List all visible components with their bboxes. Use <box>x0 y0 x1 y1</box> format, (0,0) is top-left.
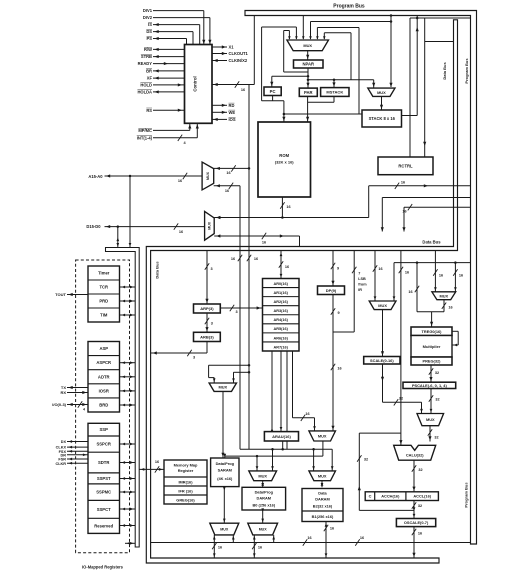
svg-text:BRD: BRD <box>99 402 108 407</box>
svg-text:MUX: MUX <box>378 303 387 308</box>
wire: stack output up to program bus <box>416 16 418 116</box>
mux U-b0sel <box>249 471 277 481</box>
svg-text:16: 16 <box>418 532 422 536</box>
memory DARAM B2/B1 <box>302 489 343 522</box>
control 16-bit bus to program bus <box>212 84 254 86</box>
mux1 input arrows <box>288 36 291 39</box>
svg-text:HOLDA: HOLDA <box>137 90 152 95</box>
wire DP out to ARAU mux <box>332 295 334 431</box>
svg-text:ASPCR: ASPCR <box>96 360 111 365</box>
svg-text:Memory Map: Memory Map <box>174 463 198 468</box>
mux U-treg <box>432 292 456 300</box>
register SCALE(0-16) <box>364 357 400 365</box>
svg-text:XF: XF <box>147 76 153 81</box>
wire 7 LSB from IR to DP line <box>353 251 355 333</box>
pin IOS <box>212 118 227 120</box>
svg-text:R/W: R/W <box>144 47 152 52</box>
wire drop to scale mux right <box>393 263 395 301</box>
wire program bus drop to CALU x400.9 <box>400 251 402 446</box>
wire: stack right edge to x417 <box>402 115 418 117</box>
svg-text:3: 3 <box>211 322 213 326</box>
svg-text:TREG0(16): TREG0(16) <box>422 329 443 334</box>
data bus bar (right vertical + frame top/left/bottom) <box>146 20 457 563</box>
register group serial ASP <box>88 342 120 413</box>
svg-text:ARB(3): ARB(3) <box>200 334 214 339</box>
svg-text:(4K x16): (4K x16) <box>217 476 233 481</box>
wire line2 (arau mux out) <box>322 441 324 456</box>
wire net y=262.6 from program bus <box>394 262 471 264</box>
svg-text:MP/MC: MP/MC <box>138 128 152 133</box>
wire MSTACK out <box>333 96 335 102</box>
register ACC (C | ACCH | ACCL) <box>365 492 438 501</box>
svg-text:16: 16 <box>218 546 222 550</box>
svg-text:Data/Prog: Data/Prog <box>255 490 274 495</box>
svg-text:32: 32 <box>435 398 439 402</box>
svg-text:BR: BR <box>146 69 152 74</box>
svg-text:16: 16 <box>225 189 229 193</box>
wire riser to program bus wire1 <box>368 186 370 218</box>
svg-text:B2(32 x16): B2(32 x16) <box>313 504 333 509</box>
pin RD <box>212 104 227 106</box>
wire2 from program bus <box>382 197 470 199</box>
svg-text:Data Bus: Data Bus <box>422 240 441 245</box>
svg-text:16: 16 <box>459 274 463 278</box>
wire: x424.7 to RCTRL top with arrow <box>424 18 426 157</box>
wire data bus to AR registers <box>280 251 282 279</box>
wire ROM output <box>281 197 283 218</box>
svg-text:MUX: MUX <box>206 171 210 180</box>
wire b0 low mux in left <box>253 535 255 558</box>
svg-text:PSCALE(-6, 0, 1, 4): PSCALE(-6, 0, 1, 4) <box>412 383 448 388</box>
svg-text:SARAM: SARAM <box>218 468 232 473</box>
svg-text:16: 16 <box>405 271 409 275</box>
svg-text:16: 16 <box>285 265 289 269</box>
wire: bus bar to stack mux right input <box>390 14 393 17</box>
svg-text:CLKOUT1: CLKOUT1 <box>229 51 249 56</box>
svg-text:Program Bus: Program Bus <box>464 482 469 508</box>
svg-text:from: from <box>358 283 367 287</box>
svg-text:(32K x 16): (32K x 16) <box>275 160 295 165</box>
mux U-arp <box>209 383 236 391</box>
svg-text:IMR(16): IMR(16) <box>178 479 193 484</box>
svg-text:AR7(16): AR7(16) <box>274 345 289 349</box>
svg-text:32: 32 <box>418 468 422 472</box>
wire NPAR out <box>307 68 309 88</box>
svg-text:16: 16 <box>408 290 412 294</box>
register file AR0-AR7 <box>263 279 300 352</box>
svg-text:16: 16 <box>231 257 235 261</box>
svg-text:16: 16 <box>178 179 182 183</box>
register STACK 8x16 <box>362 110 402 127</box>
svg-text:AR3(16): AR3(16) <box>274 309 289 313</box>
wire PAR to ROM <box>307 96 309 122</box>
register OSCALE(0-7) <box>396 519 435 527</box>
mux U-data (data mux) <box>205 211 215 240</box>
wire DP drop <box>332 251 334 287</box>
svg-text:16: 16 <box>448 306 452 310</box>
svg-text:16: 16 <box>307 536 311 540</box>
svg-text:ACCH(16): ACCH(16) <box>381 494 400 499</box>
svg-text:4: 4 <box>83 408 85 412</box>
mux U-b2sel <box>309 471 336 481</box>
wire drop to ARP <box>206 251 208 305</box>
svg-text:9: 9 <box>337 267 339 271</box>
pin CLKOUT1 <box>212 53 227 55</box>
mux U-calu <box>417 414 444 426</box>
svg-text:MUX: MUX <box>318 433 327 438</box>
wire DIV2 drop to control <box>209 18 211 45</box>
svg-text:PRD: PRD <box>99 299 108 304</box>
svg-text:RCTRL: RCTRL <box>398 163 413 168</box>
svg-text:WE: WE <box>229 110 236 115</box>
svg-text:MUX: MUX <box>318 473 327 478</box>
svg-text:16: 16 <box>305 412 309 416</box>
svg-text:AR0(16): AR0(16) <box>274 282 289 286</box>
wire drop to treg via jog <box>416 263 418 312</box>
svg-text:16: 16 <box>262 241 266 245</box>
register group timer <box>88 266 120 322</box>
svg-text:CALU(32): CALU(32) <box>406 452 424 457</box>
wire drop to scale mux left <box>374 251 376 302</box>
wire pc loop into mux1 <box>262 26 297 28</box>
svg-text:SCALE(0-16): SCALE(0-16) <box>370 358 394 363</box>
wire line1 drops <box>272 449 274 471</box>
wire data mux top input arrow <box>216 216 220 219</box>
svg-text:LSB: LSB <box>358 277 366 281</box>
wire: net y=18 from x410 to program bus bar <box>410 17 471 19</box>
svg-text:32: 32 <box>435 371 439 375</box>
svg-text:32: 32 <box>418 504 422 508</box>
pin CLKIN/X2 <box>212 60 227 62</box>
svg-text:ACCL(16): ACCL(16) <box>413 494 431 499</box>
svg-text:MUX: MUX <box>377 90 386 95</box>
svg-text:IOSR: IOSR <box>99 388 109 393</box>
wire AR out 2 to ARAU <box>280 351 282 432</box>
register NPAR <box>294 60 324 68</box>
wire: x410 to RCTRL top <box>409 18 411 157</box>
svg-text:IOS: IOS <box>229 117 236 122</box>
svg-text:16: 16 <box>360 536 364 540</box>
svg-text:16: 16 <box>254 257 258 261</box>
svg-text:32: 32 <box>364 458 368 462</box>
wire drop to tmux right <box>454 263 456 292</box>
svg-text:CLKIN/X2: CLKIN/X2 <box>229 58 248 63</box>
svg-text:CLKR: CLKR <box>55 462 66 466</box>
svg-text:16: 16 <box>378 267 382 271</box>
svg-text:TCR: TCR <box>99 285 108 290</box>
memory ROM (32K x 16) <box>258 122 311 197</box>
svg-text:16: 16 <box>337 367 341 371</box>
svg-text:SSPST: SSPST <box>97 476 111 481</box>
svg-text:PAR: PAR <box>304 90 313 95</box>
svg-text:DIV2: DIV2 <box>143 15 153 20</box>
wire1 to program bus <box>369 185 471 187</box>
svg-text:MUX: MUX <box>303 43 312 48</box>
svg-text:16: 16 <box>226 171 230 175</box>
wire b1 out to data bus <box>325 522 327 559</box>
svg-text:MUX: MUX <box>218 385 227 390</box>
reserved-to-bar arrow <box>125 542 135 544</box>
wire scale mux to SCALE <box>382 310 384 357</box>
register group SSP <box>88 423 120 533</box>
wire PC to ROM <box>283 101 285 122</box>
wire y21.5 line drop into mux1 <box>310 22 312 40</box>
wire drop to MSTACK <box>333 80 335 88</box>
wire CALU out to ACC <box>413 460 415 492</box>
wire loopA into mux1 <box>316 28 318 40</box>
svg-text:16: 16 <box>241 88 245 92</box>
svg-text:DX: DX <box>61 440 67 444</box>
wire ARAU out to line1 <box>282 441 284 449</box>
svg-text:STRB: STRB <box>141 54 152 59</box>
svg-text:Program Bus: Program Bus <box>464 58 469 84</box>
mux U-b0low <box>248 523 278 535</box>
svg-text:3: 3 <box>210 267 212 271</box>
svg-text:Register: Register <box>178 468 194 473</box>
svg-text:DIV1: DIV1 <box>143 8 153 13</box>
wire line1 <box>240 448 332 450</box>
svg-text:AR5(16): AR5(16) <box>274 327 289 331</box>
wire OSCALE out to data bus <box>413 527 415 558</box>
svg-text:Data Bus: Data Bus <box>155 261 160 279</box>
svg-text:INT(1-4): INT(1-4) <box>137 135 153 140</box>
svg-text:ROM: ROM <box>279 153 289 158</box>
wire PC output loop <box>272 96 274 101</box>
svg-text:MUX: MUX <box>258 473 267 478</box>
svg-text:IO-Mapped Registers: IO-Mapped Registers <box>82 565 124 570</box>
svg-text:SSPMC: SSPMC <box>96 490 111 495</box>
wire ARP to ARB <box>206 313 208 332</box>
wire AR out 4 to arau mux <box>292 351 294 418</box>
svg-text:32: 32 <box>434 436 438 440</box>
svg-text:RX: RX <box>60 390 66 395</box>
wire b0 low mux in right <box>273 535 275 543</box>
register PC <box>264 87 281 96</box>
svg-text:RS: RS <box>146 108 152 113</box>
svg-text:SSPCT: SSPCT <box>97 507 111 512</box>
svg-text:AR1(16): AR1(16) <box>274 291 289 295</box>
svg-text:9: 9 <box>337 311 339 315</box>
svg-text:MUX: MUX <box>439 293 448 298</box>
svg-text:16: 16 <box>179 230 183 234</box>
register ARP(3) <box>194 304 221 313</box>
memory DARAM B0 <box>242 487 286 510</box>
wire ARB out to left bar <box>206 342 208 354</box>
wire treg side loop to multiplier <box>452 330 458 332</box>
register TREG0(16) <box>411 327 452 336</box>
alu CALU(32) <box>394 445 436 460</box>
svg-text:Program Bus: Program Bus <box>333 4 365 10</box>
svg-text:ARP(3): ARP(3) <box>200 306 214 311</box>
svg-text:IFR (16): IFR (16) <box>178 488 193 493</box>
svg-text:DARAM: DARAM <box>257 496 271 501</box>
svg-text:DP(9): DP(9) <box>326 288 337 293</box>
svg-text:MUX: MUX <box>220 528 229 532</box>
wire3 from program bus <box>404 206 471 208</box>
svg-text:STACK 8 x 16: STACK 8 x 16 <box>369 116 396 121</box>
io-registers bus bar (L-shape) <box>106 248 140 548</box>
mux U-arau <box>309 431 336 441</box>
wire x283.7 loop into mux1 <box>288 31 290 40</box>
pin WE <box>212 111 227 113</box>
wire drop to tmux left <box>434 251 436 292</box>
mux U-scale <box>369 301 396 310</box>
program bus bar (top horizontal + right vertical) <box>245 11 477 545</box>
svg-text:PS: PS <box>147 36 153 41</box>
svg-text:MUX: MUX <box>208 221 212 230</box>
wire DIV1 drop to control <box>203 11 205 45</box>
wire saram mux in left <box>213 535 215 558</box>
svg-text:ARAU(16): ARAU(16) <box>272 434 291 439</box>
wire PC to stack left <box>284 113 362 115</box>
svg-text:A15-A0: A15-A0 <box>88 174 103 179</box>
svg-text:3: 3 <box>193 356 195 360</box>
wire: step connector to data bus bar left edge <box>425 41 454 43</box>
svg-text:AR6(16): AR6(16) <box>274 336 289 340</box>
svg-text:16: 16 <box>401 181 405 185</box>
svg-text:TOUT: TOUT <box>55 292 66 297</box>
register PSCALE(-6,0,1,4) <box>403 382 456 388</box>
svg-text:D15-D0: D15-D0 <box>86 224 101 229</box>
svg-text:GREG(16): GREG(16) <box>176 497 195 502</box>
wire bus drop into mux1 <box>302 16 304 40</box>
register PAR <box>299 88 317 96</box>
wire b2 mux to b2 <box>321 481 323 488</box>
memory SARAM <box>211 458 239 487</box>
wire addr mux top input from trunk249 <box>214 167 249 169</box>
svg-text:DARAM: DARAM <box>315 497 329 502</box>
control block <box>185 45 213 124</box>
svg-text:X1: X1 <box>229 45 235 50</box>
svg-text:ADTR: ADTR <box>98 374 110 379</box>
svg-text:DS: DS <box>146 29 152 34</box>
wire D-line drop to io bar <box>117 227 119 248</box>
wire b0 mux to b0 <box>262 481 264 488</box>
wire addr mux bottom input from trunk240 <box>214 185 240 187</box>
wire bottom horizontal net y=542.5 <box>151 542 471 544</box>
svg-text:Reserved: Reserved <box>94 523 113 528</box>
wire loopB into mux1 <box>323 33 325 39</box>
wire PREG out to PSCALE <box>430 365 432 382</box>
svg-text:7: 7 <box>358 272 360 276</box>
svg-text:B1(256 x16): B1(256 x16) <box>312 514 334 519</box>
multiplier block <box>411 336 452 358</box>
svg-text:I/O(0-3): I/O(0-3) <box>52 402 66 407</box>
trunk wire x=249 <box>248 85 250 450</box>
svg-text:Data/Prog: Data/Prog <box>216 461 235 466</box>
svg-text:3: 3 <box>235 310 237 314</box>
svg-text:Multiplier: Multiplier <box>423 344 441 349</box>
wire SCALE out to calu mux <box>382 364 384 402</box>
wire line2 drops <box>256 456 258 471</box>
wire A-line drop to io bar <box>129 176 131 248</box>
svg-text:TIM: TIM <box>100 313 108 318</box>
register PREG(32) <box>411 357 452 365</box>
wire b0 low mux up <box>262 510 264 523</box>
wire arpmux feed A <box>209 364 249 366</box>
wire arp mux out to SARAM <box>222 391 224 458</box>
register ARB(3) <box>194 332 221 341</box>
svg-text:AR2(16): AR2(16) <box>274 300 289 304</box>
wire ACC out <box>413 501 415 519</box>
wire PSCALE out to calu mux <box>430 389 432 414</box>
svg-text:16: 16 <box>155 460 159 464</box>
svg-text:OSCALE(0-7): OSCALE(0-7) <box>404 520 429 525</box>
mux U-addr (address mux) <box>202 162 214 190</box>
svg-text:Timer: Timer <box>98 271 110 276</box>
trunk wire x=240 <box>239 186 241 449</box>
svg-text:SSP: SSP <box>100 427 109 432</box>
svg-text:ASP: ASP <box>99 346 108 351</box>
svg-text:RD: RD <box>229 103 235 108</box>
wire saram mux in right <box>232 535 234 543</box>
wire: y21.5 horizontal into mux1 input <box>311 21 392 23</box>
wire ROM out / data mux top feed <box>214 217 369 219</box>
wire NPAR branch right <box>308 79 374 81</box>
svg-text:MUX: MUX <box>259 528 268 532</box>
wire drop to mux2 <box>373 80 375 88</box>
svg-text:IS: IS <box>148 22 152 27</box>
io-mapped registers dashed box <box>76 260 130 553</box>
svg-text:PC: PC <box>270 89 276 94</box>
svg-text:16: 16 <box>439 274 443 278</box>
svg-text:16: 16 <box>330 527 334 531</box>
wire saram mux up <box>223 487 225 524</box>
wire io bar to memory map register <box>139 468 164 470</box>
wire AR out 3 to line1 <box>286 351 288 449</box>
svg-text:READY: READY <box>138 61 153 66</box>
register RCTRL <box>378 157 433 175</box>
svg-text:SDTR: SDTR <box>98 460 109 465</box>
svg-text:Data Bus: Data Bus <box>442 62 447 80</box>
mux U-stk (stack mux) <box>368 88 395 96</box>
wire AR out 1 to ARAU (writeback, arrow up) <box>271 351 273 432</box>
wire NPAR branch to PC <box>272 75 308 77</box>
svg-text:16: 16 <box>258 546 262 550</box>
svg-text:AR4(16): AR4(16) <box>274 318 289 322</box>
svg-text:Control: Control <box>193 76 198 91</box>
wire mux1 to NPAR <box>307 51 309 60</box>
wire arpmux feed B <box>234 371 250 373</box>
wire ACC feedback loop to CALU <box>359 509 414 511</box>
svg-text:MSTACK: MSTACK <box>326 90 343 95</box>
wire tmux out <box>443 300 445 312</box>
mux U-pcsel (program counter mux) <box>287 40 329 51</box>
mux U-saram (below SARAM) <box>210 523 239 535</box>
svg-text:PREG(32): PREG(32) <box>423 359 442 364</box>
svg-text:MUX: MUX <box>426 417 435 422</box>
svg-text:SSPCR: SSPCR <box>96 442 110 447</box>
svg-text:16: 16 <box>286 205 290 209</box>
pin X1 <box>212 46 227 48</box>
register DP(9) <box>318 286 345 295</box>
svg-text:C: C <box>369 494 372 499</box>
register memory map register block <box>164 460 207 504</box>
svg-text:Data: Data <box>318 491 327 496</box>
svg-text:IR: IR <box>358 288 362 292</box>
wire mux2 to stack <box>381 96 383 110</box>
wire calu mux out <box>429 426 431 442</box>
alu ARAU(16) <box>264 432 298 441</box>
svg-text:HOLD: HOLD <box>140 83 152 88</box>
svg-text:B0 (256 x16): B0 (256 x16) <box>252 503 275 508</box>
wire data mux lower input to frame <box>214 235 299 237</box>
svg-text:NPAR: NPAR <box>302 62 314 67</box>
wire ARP select to AR registers <box>220 307 262 309</box>
register MSTACK <box>321 88 349 97</box>
register-to-bar arrows <box>120 286 136 288</box>
